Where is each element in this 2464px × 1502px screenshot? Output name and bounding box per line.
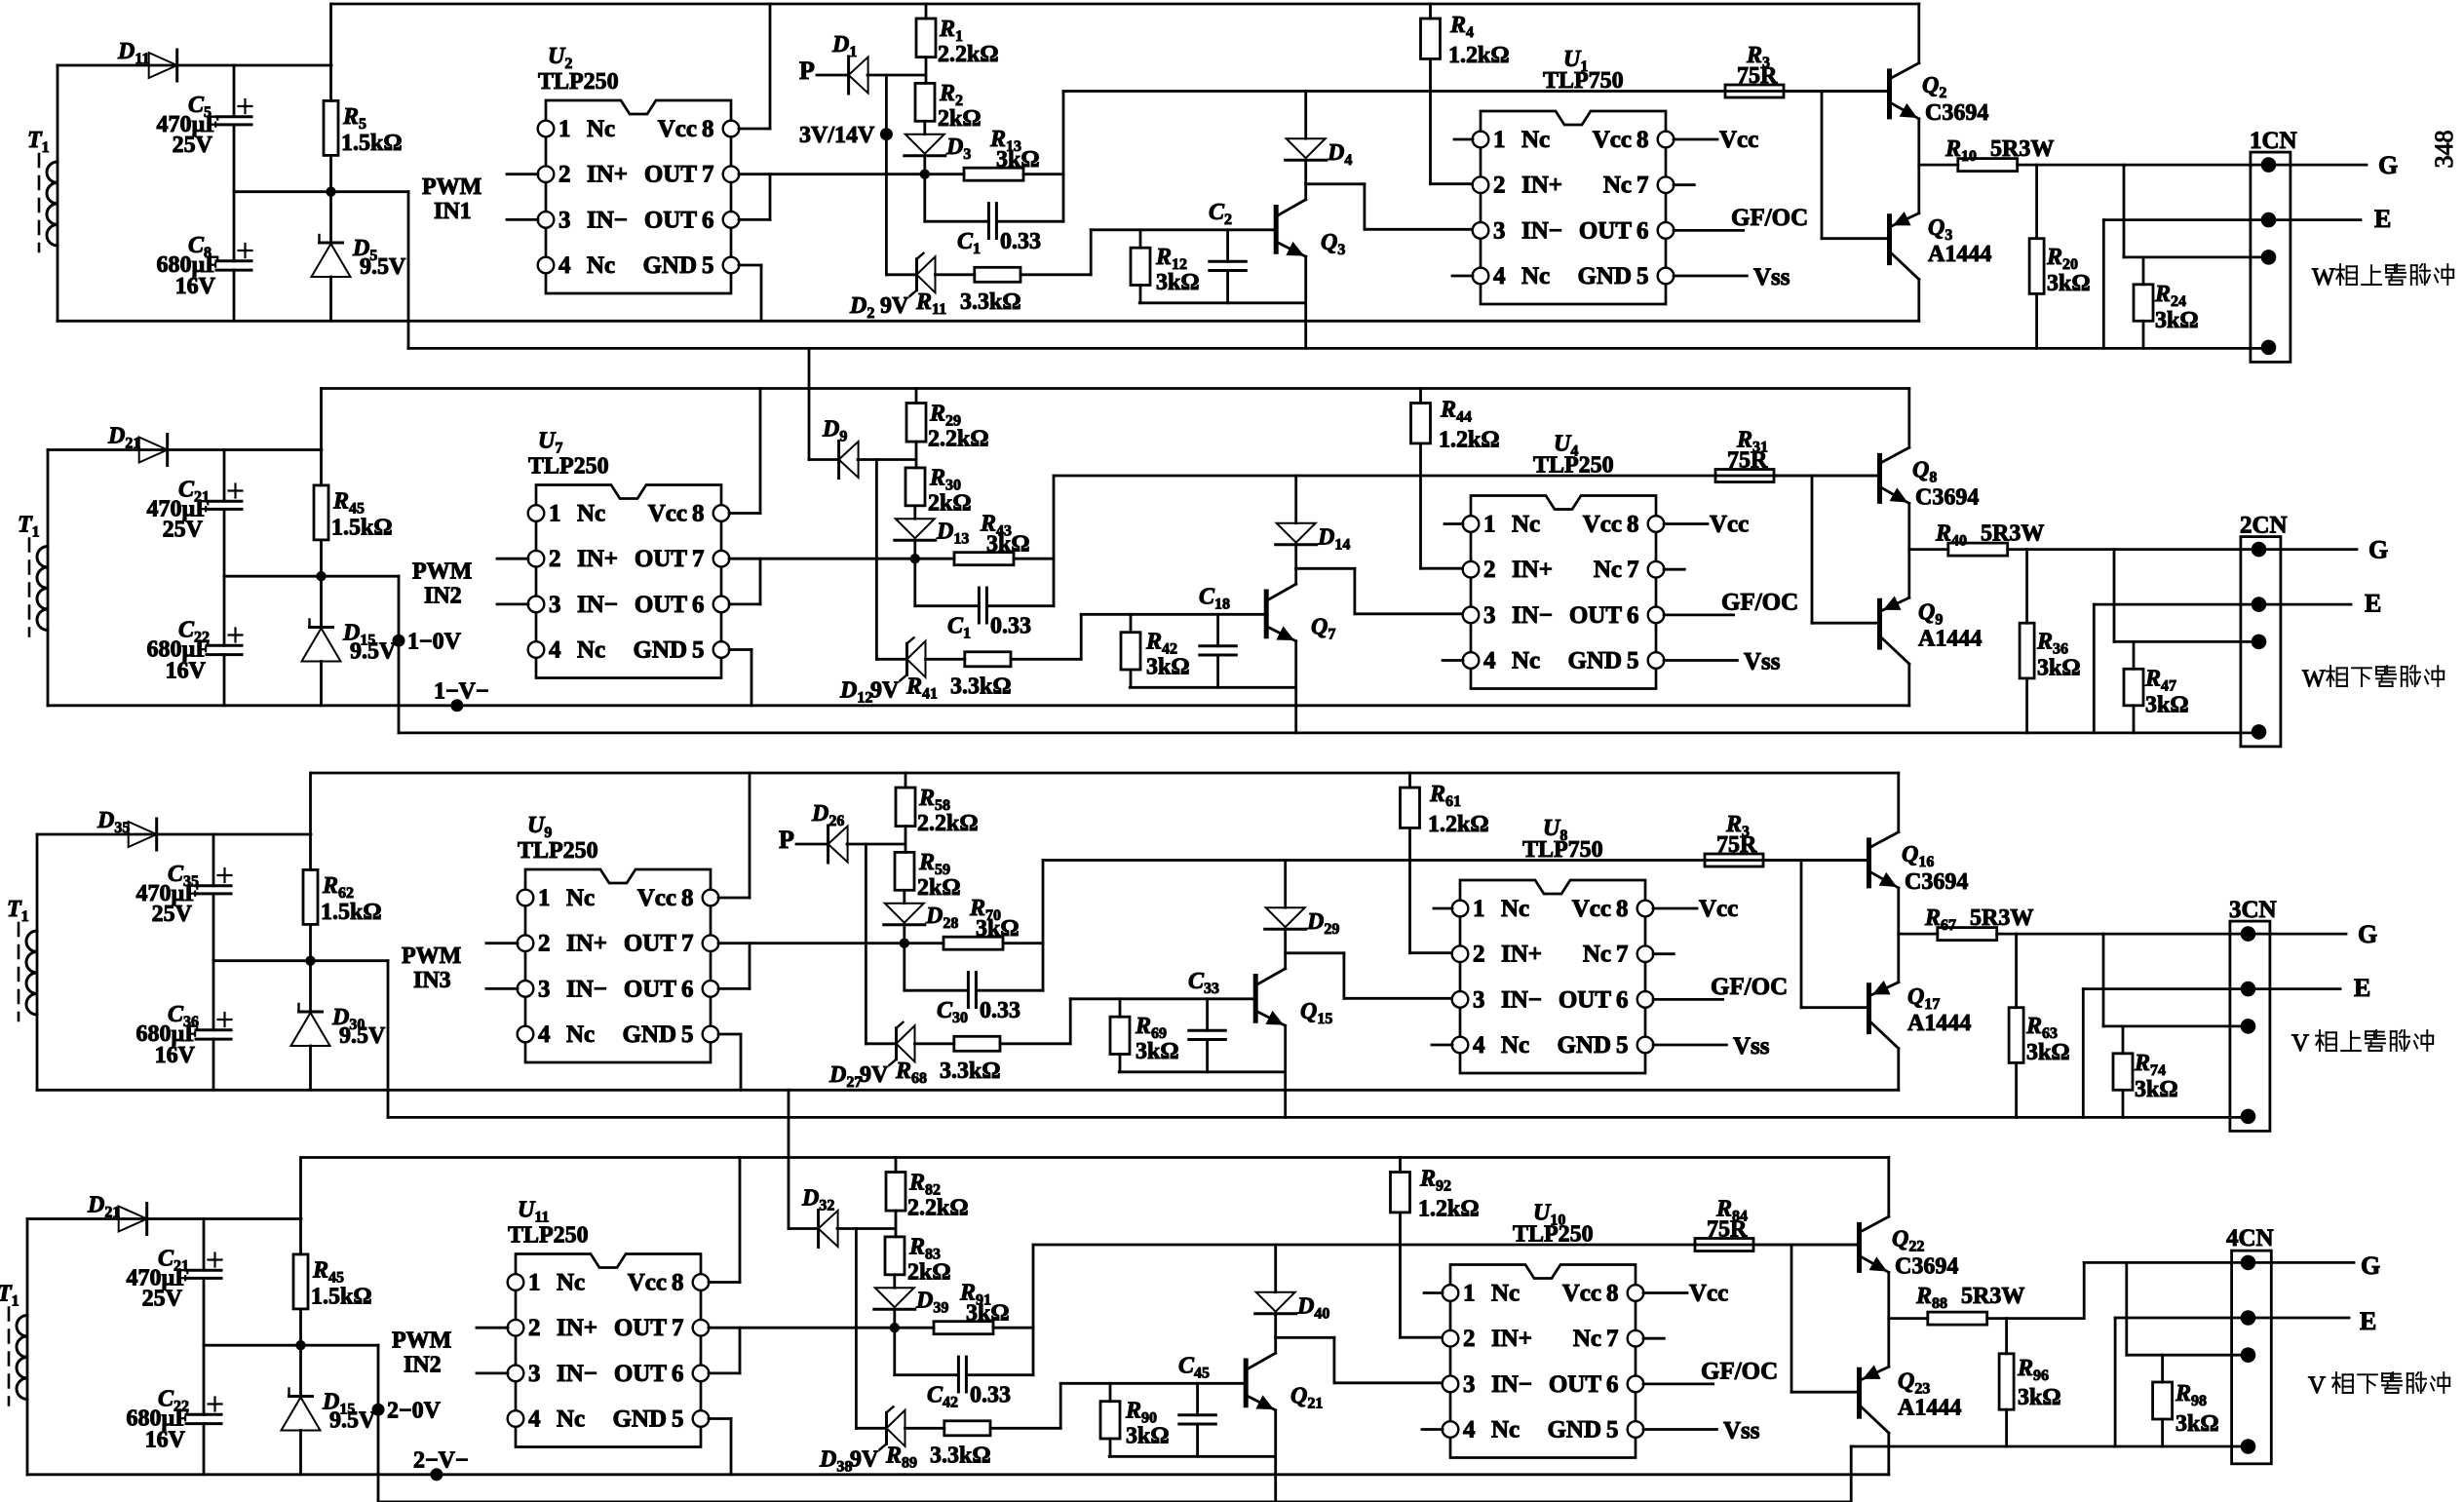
svg-text:6: 6 [702, 207, 714, 233]
svg-text:75R: 75R [1716, 832, 1757, 858]
svg-text:IN−: IN− [557, 1361, 597, 1387]
svg-text:E: E [2365, 590, 2381, 618]
svg-text:5R3W: 5R3W [1981, 521, 2044, 547]
svg-text:1.2kΩ: 1.2kΩ [1448, 43, 1510, 68]
svg-text:1.5kΩ: 1.5kΩ [331, 516, 393, 541]
svg-text:Vss: Vss [1753, 264, 1790, 290]
svg-text:TLP750: TLP750 [1522, 837, 1603, 863]
svg-text:5: 5 [672, 1406, 684, 1433]
svg-text:IN+: IN+ [566, 931, 607, 957]
svg-text:2: 2 [528, 1315, 541, 1341]
svg-text:GF/OC: GF/OC [1721, 590, 1798, 616]
svg-text:Nc: Nc [587, 116, 615, 142]
svg-text:8: 8 [681, 885, 694, 911]
svg-text:3: 3 [1463, 1371, 1476, 1398]
svg-text:IN2: IN2 [404, 1353, 442, 1378]
svg-text:Nc: Nc [1583, 942, 1611, 968]
svg-text:9V: 9V [870, 678, 900, 704]
svg-text:Vcc: Vcc [1593, 127, 1632, 153]
svg-text:2−0V: 2−0V [387, 1399, 442, 1424]
svg-text:C3694: C3694 [1895, 1254, 1958, 1280]
svg-text:9.5V: 9.5V [329, 1408, 376, 1434]
svg-text:5: 5 [681, 1021, 694, 1048]
svg-text:PWM: PWM [422, 174, 481, 200]
svg-text:W: W [2312, 264, 2335, 290]
svg-text:Nc: Nc [1573, 1326, 1601, 1352]
svg-text:Nc: Nc [587, 252, 615, 279]
svg-text:C3694: C3694 [1915, 485, 1979, 511]
svg-text:3kΩ: 3kΩ [986, 532, 1030, 558]
svg-text:1−0V: 1−0V [407, 630, 462, 655]
svg-text:4CN: 4CN [2226, 1225, 2274, 1252]
svg-text:OUT: OUT [635, 592, 688, 618]
svg-text:A1444: A1444 [1928, 242, 1991, 267]
svg-text:8: 8 [692, 501, 705, 527]
svg-text:Vss: Vss [1744, 649, 1781, 675]
svg-text:TLP250: TLP250 [508, 1223, 589, 1249]
svg-text:V: V [2308, 1372, 2326, 1399]
svg-text:Vcc: Vcc [637, 885, 676, 911]
svg-text:3kΩ: 3kΩ [1146, 655, 1190, 680]
svg-text:3: 3 [1483, 602, 1496, 629]
svg-text:16V: 16V [175, 274, 216, 299]
svg-text:Vcc: Vcc [1710, 512, 1749, 538]
svg-text:6: 6 [1627, 602, 1639, 629]
svg-text:A1444: A1444 [1907, 1011, 1971, 1036]
svg-text:3: 3 [1493, 217, 1506, 244]
svg-text:1: 1 [538, 885, 551, 911]
svg-text:Nc: Nc [1521, 127, 1550, 153]
svg-text:4: 4 [549, 637, 561, 664]
svg-text:3kΩ: 3kΩ [2026, 1040, 2070, 1065]
svg-text:9.5V: 9.5V [350, 639, 397, 665]
svg-text:IN−: IN− [1512, 602, 1553, 629]
svg-text:Nc: Nc [1491, 1417, 1520, 1444]
svg-text:Nc: Nc [1594, 557, 1622, 583]
svg-text:OUT: OUT [635, 546, 688, 572]
svg-text:2kΩ: 2kΩ [907, 1260, 951, 1286]
svg-text:2kΩ: 2kΩ [938, 106, 982, 132]
svg-text:IN+: IN+ [557, 1315, 597, 1341]
svg-text:3: 3 [549, 592, 561, 618]
svg-text:3: 3 [558, 207, 571, 233]
svg-text:3CN: 3CN [2229, 897, 2277, 923]
svg-text:75R: 75R [1737, 63, 1778, 89]
svg-text:2kΩ: 2kΩ [917, 875, 961, 901]
svg-text:GND: GND [1577, 263, 1632, 289]
svg-text:1: 1 [528, 1270, 541, 1296]
svg-text:TLP250: TLP250 [1533, 453, 1614, 479]
svg-text:A1444: A1444 [1918, 627, 1982, 652]
svg-text:OUT: OUT [1549, 1371, 1602, 1398]
svg-text:C3694: C3694 [1905, 869, 1968, 895]
svg-text:IN+: IN+ [587, 162, 628, 188]
svg-text:6: 6 [672, 1361, 684, 1387]
svg-text:0.33: 0.33 [990, 614, 1031, 639]
svg-text:IN3: IN3 [413, 968, 451, 993]
svg-text:PWM: PWM [402, 944, 461, 969]
svg-text:348: 348 [2430, 131, 2458, 169]
svg-text:GND: GND [1567, 648, 1622, 674]
svg-text:2.2kΩ: 2.2kΩ [938, 42, 999, 67]
svg-text:7: 7 [1616, 942, 1629, 968]
svg-text:8: 8 [1616, 896, 1629, 922]
svg-text:1: 1 [1473, 896, 1485, 922]
svg-text:IN+: IN+ [1521, 173, 1562, 199]
svg-text:P: P [779, 826, 794, 854]
svg-text:IN1: IN1 [434, 199, 472, 224]
svg-text:5: 5 [692, 637, 705, 664]
svg-text:OUT: OUT [614, 1315, 668, 1341]
svg-text:2: 2 [1493, 173, 1506, 199]
svg-text:2: 2 [538, 931, 551, 957]
svg-text:Vcc: Vcc [1689, 1281, 1728, 1307]
svg-text:IN−: IN− [1521, 217, 1562, 244]
svg-text:2: 2 [1473, 942, 1485, 968]
svg-text:2.2kΩ: 2.2kΩ [907, 1196, 969, 1221]
svg-text:2.2kΩ: 2.2kΩ [917, 811, 979, 836]
svg-text:4: 4 [1463, 1417, 1476, 1444]
svg-text:Vcc: Vcc [1583, 512, 1622, 538]
svg-text:Vcc: Vcc [1572, 896, 1611, 922]
svg-text:6: 6 [1616, 986, 1629, 1013]
svg-text:3.3kΩ: 3.3kΩ [960, 289, 1021, 315]
svg-text:5: 5 [1636, 263, 1649, 289]
svg-text:3kΩ: 3kΩ [966, 1301, 1010, 1327]
svg-text:G: G [2368, 536, 2388, 564]
svg-text:16V: 16V [155, 1043, 196, 1068]
svg-text:P: P [799, 57, 815, 85]
svg-text:1: 1 [1463, 1281, 1476, 1307]
svg-text:25V: 25V [142, 1287, 183, 1312]
svg-text:5R3W: 5R3W [1990, 136, 2054, 162]
svg-text:V: V [2291, 1030, 2309, 1057]
svg-text:Vcc: Vcc [1719, 127, 1758, 153]
svg-text:2−V−: 2−V− [413, 1448, 469, 1474]
svg-text:5: 5 [1627, 648, 1639, 674]
svg-text:3V/14V: 3V/14V [799, 123, 875, 148]
svg-text:IN−: IN− [587, 207, 628, 233]
svg-text:25V: 25V [173, 133, 213, 158]
svg-text:3kΩ: 3kΩ [2155, 308, 2199, 333]
svg-text:Nc: Nc [1512, 512, 1540, 538]
svg-text:TLP250: TLP250 [1513, 1222, 1594, 1248]
svg-text:16V: 16V [145, 1428, 186, 1453]
svg-text:Vcc: Vcc [1699, 896, 1738, 922]
svg-text:Vss: Vss [1723, 1418, 1760, 1444]
svg-text:3kΩ: 3kΩ [2018, 1385, 2061, 1410]
svg-text:3: 3 [538, 976, 551, 1002]
svg-text:6: 6 [1636, 217, 1649, 244]
svg-text:G: G [2378, 151, 2398, 179]
svg-text:75R: 75R [1727, 448, 1768, 474]
svg-text:1: 1 [549, 501, 561, 527]
svg-text:IN+: IN+ [1512, 557, 1553, 583]
svg-text:9V: 9V [850, 1447, 879, 1473]
svg-text:1.5kΩ: 1.5kΩ [321, 900, 382, 925]
svg-text:5: 5 [702, 252, 714, 279]
svg-text:Nc: Nc [566, 885, 595, 911]
svg-text:GND: GND [1547, 1417, 1601, 1444]
svg-text:3.3kΩ: 3.3kΩ [930, 1444, 991, 1469]
svg-text:Vcc: Vcc [648, 501, 687, 527]
svg-text:TLP250: TLP250 [538, 69, 619, 95]
svg-text:1: 1 [1493, 127, 1506, 153]
svg-text:6: 6 [692, 592, 705, 618]
svg-text:E: E [2354, 974, 2370, 1002]
svg-text:W: W [2302, 666, 2326, 692]
svg-text:OUT: OUT [644, 207, 698, 233]
svg-text:7: 7 [681, 931, 694, 957]
svg-text:4: 4 [1493, 263, 1506, 289]
svg-text:Nc: Nc [557, 1270, 585, 1296]
svg-text:E: E [2374, 205, 2391, 233]
svg-text:3kΩ: 3kΩ [1156, 270, 1200, 295]
svg-text:3kΩ: 3kΩ [996, 147, 1040, 173]
svg-text:7: 7 [692, 546, 705, 572]
svg-text:3: 3 [1473, 986, 1485, 1013]
svg-text:GND: GND [612, 1406, 667, 1433]
svg-text:9V: 9V [880, 293, 909, 319]
svg-text:IN−: IN− [566, 976, 607, 1002]
svg-text:5R3W: 5R3W [1970, 905, 2033, 931]
svg-text:TLP250: TLP250 [518, 838, 598, 864]
svg-text:Vcc: Vcc [658, 116, 697, 142]
svg-text:3kΩ: 3kΩ [2047, 271, 2091, 296]
svg-text:1−V−: 1−V− [434, 679, 489, 705]
svg-text:OUT: OUT [1559, 986, 1612, 1013]
svg-text:25V: 25V [163, 518, 204, 543]
svg-text:Vss: Vss [1733, 1033, 1770, 1059]
svg-text:0.33: 0.33 [1000, 229, 1041, 254]
svg-text:9V: 9V [860, 1062, 889, 1088]
svg-text:4: 4 [558, 252, 571, 279]
svg-text:3kΩ: 3kΩ [1136, 1039, 1179, 1064]
svg-text:4: 4 [1473, 1032, 1485, 1059]
svg-text:9.5V: 9.5V [360, 254, 406, 280]
svg-text:6: 6 [1606, 1371, 1619, 1398]
svg-text:IN+: IN+ [577, 546, 618, 572]
svg-text:GF/OC: GF/OC [1711, 974, 1788, 1000]
svg-text:Nc: Nc [1501, 1032, 1529, 1059]
svg-text:IN−: IN− [1501, 986, 1542, 1013]
svg-text:Nc: Nc [1512, 648, 1540, 674]
svg-text:2: 2 [1463, 1326, 1476, 1352]
svg-text:4: 4 [538, 1021, 551, 1048]
svg-text:1.5kΩ: 1.5kΩ [311, 1285, 372, 1310]
svg-text:3: 3 [528, 1361, 541, 1387]
svg-text:0.33: 0.33 [980, 998, 1020, 1023]
svg-text:C3694: C3694 [1925, 100, 1988, 126]
svg-text:0.33: 0.33 [970, 1383, 1011, 1408]
svg-text:A1444: A1444 [1898, 1396, 1961, 1421]
svg-text:7: 7 [1627, 557, 1639, 583]
svg-text:GF/OC: GF/OC [1731, 205, 1808, 231]
svg-text:3kΩ: 3kΩ [1126, 1424, 1170, 1449]
svg-text:1.5kΩ: 1.5kΩ [341, 131, 403, 156]
svg-text:OUT: OUT [1579, 217, 1633, 244]
svg-text:PWM: PWM [392, 1329, 451, 1354]
svg-text:Nc: Nc [1603, 173, 1632, 199]
svg-text:1.2kΩ: 1.2kΩ [1418, 1197, 1480, 1222]
svg-text:IN+: IN+ [1491, 1326, 1532, 1352]
svg-text:TLP750: TLP750 [1543, 68, 1624, 94]
svg-text:Nc: Nc [557, 1406, 585, 1433]
svg-text:7: 7 [1606, 1326, 1619, 1352]
svg-text:3kΩ: 3kΩ [2135, 1077, 2178, 1102]
svg-text:4: 4 [528, 1406, 541, 1433]
svg-text:OUT: OUT [624, 976, 677, 1002]
svg-text:1: 1 [558, 116, 571, 142]
svg-text:OUT: OUT [1569, 602, 1623, 629]
svg-text:75R: 75R [1707, 1217, 1748, 1243]
svg-text:GND: GND [642, 252, 697, 279]
svg-text:IN+: IN+ [1501, 942, 1542, 968]
svg-text:7: 7 [702, 162, 714, 188]
svg-text:1CN: 1CN [2250, 128, 2297, 154]
svg-text:GF/OC: GF/OC [1701, 1359, 1778, 1385]
svg-text:GND: GND [622, 1021, 676, 1048]
svg-text:IN−: IN− [1491, 1371, 1532, 1398]
svg-text:OUT: OUT [614, 1361, 668, 1387]
svg-text:6: 6 [681, 976, 694, 1002]
svg-text:OUT: OUT [644, 162, 698, 188]
svg-text:8: 8 [702, 116, 714, 142]
svg-text:Vcc: Vcc [628, 1270, 667, 1296]
svg-text:GND: GND [1557, 1032, 1611, 1059]
svg-text:OUT: OUT [624, 931, 677, 957]
svg-text:8: 8 [1627, 512, 1639, 538]
svg-text:2: 2 [1483, 557, 1496, 583]
svg-text:3kΩ: 3kΩ [2145, 693, 2189, 718]
svg-text:IN2: IN2 [424, 584, 462, 609]
svg-text:IN−: IN− [577, 592, 618, 618]
svg-text:Nc: Nc [1491, 1281, 1520, 1307]
svg-text:Nc: Nc [1521, 263, 1550, 289]
svg-text:1.2kΩ: 1.2kΩ [1439, 428, 1500, 453]
svg-text:5: 5 [1606, 1417, 1619, 1444]
svg-text:G: G [2361, 1252, 2380, 1280]
svg-text:3.3kΩ: 3.3kΩ [940, 1059, 1001, 1084]
svg-text:1.2kΩ: 1.2kΩ [1428, 812, 1489, 837]
svg-text:3kΩ: 3kΩ [2175, 1411, 2219, 1437]
svg-text:TLP250: TLP250 [528, 454, 609, 480]
svg-text:Vcc: Vcc [1562, 1281, 1601, 1307]
svg-text:3.3kΩ: 3.3kΩ [950, 674, 1012, 700]
svg-text:GND: GND [633, 637, 687, 664]
svg-text:9.5V: 9.5V [339, 1023, 386, 1049]
svg-text:3kΩ: 3kΩ [2037, 656, 2081, 681]
svg-text:8: 8 [1606, 1281, 1619, 1307]
svg-text:2.2kΩ: 2.2kΩ [928, 427, 989, 452]
svg-text:Nc: Nc [566, 1021, 595, 1048]
svg-text:16V: 16V [166, 659, 207, 684]
svg-text:2: 2 [549, 546, 561, 572]
svg-text:2kΩ: 2kΩ [928, 491, 972, 517]
svg-text:1: 1 [1483, 512, 1496, 538]
svg-text:G: G [2358, 920, 2377, 948]
svg-text:4: 4 [1483, 648, 1496, 674]
svg-text:5: 5 [1616, 1032, 1629, 1059]
svg-text:2CN: 2CN [2240, 513, 2288, 539]
svg-text:25V: 25V [152, 902, 193, 927]
svg-text:7: 7 [1636, 173, 1649, 199]
svg-text:8: 8 [1636, 127, 1649, 153]
svg-text:Nc: Nc [1501, 896, 1529, 922]
svg-text:Nc: Nc [577, 501, 605, 527]
svg-text:5R3W: 5R3W [1961, 1284, 2024, 1309]
svg-text:2: 2 [558, 162, 571, 188]
svg-text:E: E [2360, 1307, 2376, 1335]
svg-text:PWM: PWM [412, 559, 472, 585]
svg-text:7: 7 [672, 1315, 684, 1341]
svg-text:Nc: Nc [577, 637, 605, 664]
svg-text:3kΩ: 3kΩ [976, 916, 1020, 942]
svg-text:8: 8 [672, 1270, 684, 1296]
